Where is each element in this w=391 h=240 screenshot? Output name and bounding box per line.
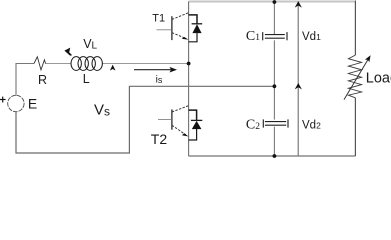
wire capacitor rail lower segment <box>273 127 275 156</box>
node cap rail top <box>273 0 277 4</box>
transistor T1 <box>157 13 189 40</box>
inductor L <box>71 57 102 71</box>
current arrow is <box>134 69 172 71</box>
svg-text:E: E <box>28 95 37 111</box>
diode D2 <box>189 110 203 140</box>
node midpoint of leg <box>187 62 191 66</box>
svg-text:Vd2: Vd2 <box>302 120 321 132</box>
wire mid from L to leg midpoint <box>102 63 189 65</box>
arrowhead VL left <box>64 48 72 56</box>
wire right load rail upper <box>354 1 356 56</box>
load arrow <box>344 60 368 100</box>
wire Vd measurement line <box>297 2 299 157</box>
svg-text:R: R <box>38 73 47 87</box>
wire top DC bus rail <box>189 1 356 3</box>
wire capacitor rail upper segment <box>273 2 275 35</box>
wire bottom DC bus rail <box>189 155 356 157</box>
svg-text:L: L <box>83 72 90 86</box>
voltage source E <box>8 95 24 111</box>
svg-text:Vs: Vs <box>94 102 110 119</box>
svg-text:is: is <box>156 74 163 85</box>
arrowhead VL right (up) <box>110 65 116 71</box>
wire transistor leg vertical <box>188 2 190 157</box>
svg-text:Vd1: Vd1 <box>302 31 321 43</box>
wire source loop: left vertical lower + bottom + right vertical + mid to cap midpoint <box>16 86 274 153</box>
node cap rail midpoint <box>273 84 277 88</box>
arrowhead Vd2 (up, below midpoint) <box>295 83 302 89</box>
plus polarity mark <box>0 99 6 101</box>
svg-text:T2: T2 <box>151 131 168 147</box>
capacitor C1 <box>263 32 287 40</box>
capacitor C2 <box>263 119 288 127</box>
wire mid from R to L <box>45 63 71 65</box>
node cap rail bottom <box>273 154 277 158</box>
wire right load rail lower <box>354 98 356 156</box>
transistor T2 <box>158 106 189 135</box>
svg-text:Load: Load <box>366 71 391 87</box>
diode D1 <box>189 15 203 42</box>
svg-text:T1: T1 <box>152 13 165 25</box>
wire capacitor rail middle segment <box>273 40 275 119</box>
wire source loop: left vertical upper <box>16 64 34 96</box>
load variable resistor <box>348 55 361 98</box>
resistor R <box>34 57 46 70</box>
arrowhead Vd1 (up, at top rail) <box>295 1 302 7</box>
